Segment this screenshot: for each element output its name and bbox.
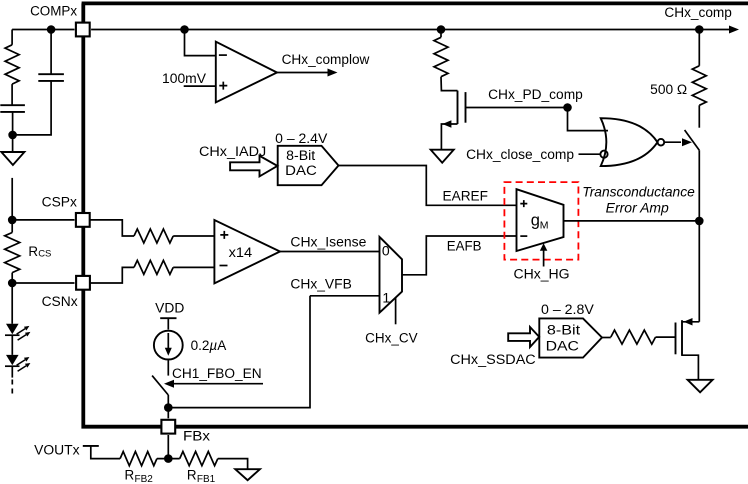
- svg-text:CHx_VFB: CHx_VFB: [290, 277, 351, 292]
- svg-text:Transconductance: Transconductance: [582, 184, 695, 199]
- svg-text:8-Bit: 8-Bit: [286, 148, 315, 163]
- svg-text:CHx_PD_comp: CHx_PD_comp: [488, 87, 583, 102]
- svg-text:CHx_HG: CHx_HG: [514, 266, 570, 281]
- svg-text:CHx_comp: CHx_comp: [664, 5, 732, 20]
- svg-text:VOUTx: VOUTx: [34, 442, 80, 457]
- svg-text:FB1: FB1: [197, 474, 216, 484]
- svg-text:CS: CS: [38, 248, 51, 259]
- svg-text:CHx_close_comp: CHx_close_comp: [466, 147, 574, 162]
- svg-text:8-Bit: 8-Bit: [547, 323, 581, 338]
- svg-text:FBx: FBx: [183, 429, 210, 444]
- svg-text:100mV: 100mV: [162, 71, 206, 86]
- svg-text:M: M: [540, 219, 549, 231]
- svg-text:CHx_complow: CHx_complow: [282, 52, 370, 67]
- svg-text:FB2: FB2: [135, 474, 154, 484]
- svg-text:CHx_SSDAC: CHx_SSDAC: [450, 352, 536, 367]
- svg-text:1: 1: [382, 289, 390, 305]
- svg-text:g: g: [531, 211, 540, 229]
- svg-text:R: R: [125, 468, 135, 483]
- svg-text:x14: x14: [229, 245, 253, 260]
- svg-text:EAFB: EAFB: [447, 239, 482, 254]
- svg-text:Error Amp: Error Amp: [606, 200, 670, 215]
- svg-text:0 – 2.4V: 0 – 2.4V: [275, 131, 327, 146]
- svg-text:CSPx: CSPx: [42, 194, 78, 209]
- svg-text:500 Ω: 500 Ω: [650, 82, 687, 97]
- svg-text:CHx_IADJ: CHx_IADJ: [199, 144, 266, 159]
- svg-text:CHx_CV: CHx_CV: [365, 331, 417, 346]
- svg-text:R: R: [28, 244, 38, 259]
- svg-text:DAC: DAC: [285, 163, 317, 178]
- svg-text:CH1_FBO_EN: CH1_FBO_EN: [172, 366, 262, 381]
- svg-text:CSNx: CSNx: [42, 294, 78, 309]
- svg-text:CHx_Isense: CHx_Isense: [290, 234, 366, 249]
- svg-text:0 – 2.8V: 0 – 2.8V: [541, 302, 594, 317]
- svg-text:DAC: DAC: [546, 339, 580, 354]
- svg-text:0.2µA: 0.2µA: [191, 338, 227, 353]
- svg-text:R: R: [187, 468, 197, 483]
- svg-text:EAREF: EAREF: [443, 189, 489, 204]
- svg-text:0: 0: [382, 243, 390, 259]
- svg-text:COMPx: COMPx: [30, 3, 77, 18]
- svg-text:VDD: VDD: [155, 301, 185, 316]
